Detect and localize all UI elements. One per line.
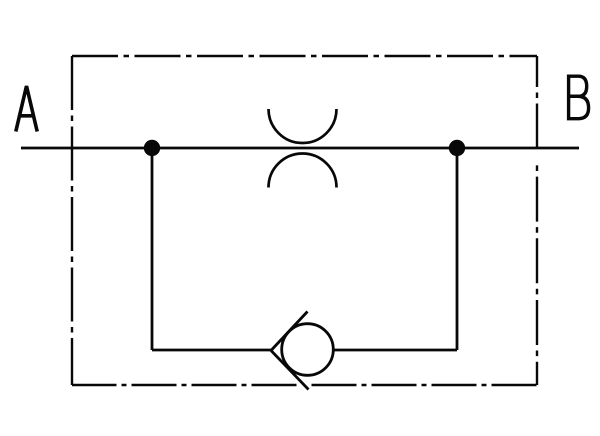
wire right branch vertical [456,148,459,350]
port label B [568,74,589,120]
wire left branch vertical [151,148,154,350]
port label A [16,86,37,132]
enclosure left border [71,56,73,385]
enclosure right border lower part [536,165,538,385]
enclosure right border upper part [536,56,538,149]
orifice lower arc [269,154,337,188]
enclosure bottom border left part [72,384,297,386]
wire bottom right segment [334,349,458,352]
wire main line A-B [21,147,579,150]
enclosure top border [72,55,537,57]
node right junction [449,140,465,156]
node left junction [144,140,160,156]
check valve seat upper leg [271,312,308,351]
wire bottom left segment [152,349,271,352]
orifice upper arc [269,109,337,143]
enclosure bottom border right part [312,384,538,386]
check valve ball [282,324,334,376]
check valve seat lower leg [271,351,309,390]
